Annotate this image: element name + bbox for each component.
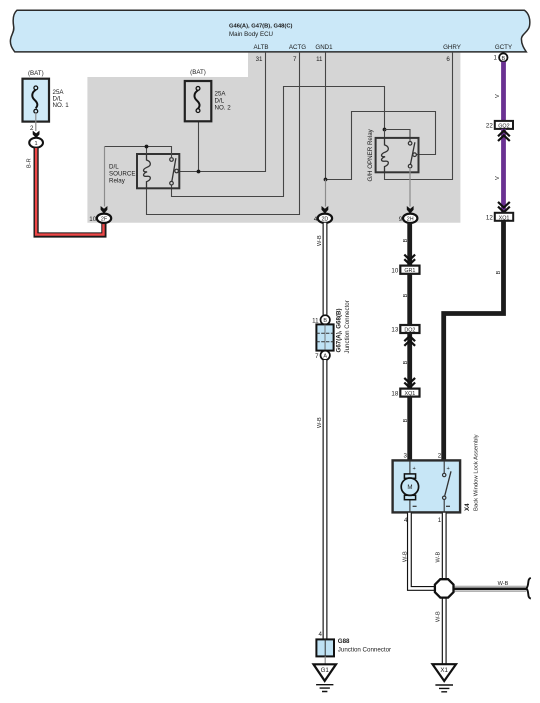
svg-text:1: 1 bbox=[438, 517, 442, 524]
relay D/L SOURCE bbox=[109, 154, 179, 188]
svg-text:GHRY: GHRY bbox=[443, 44, 461, 51]
svg-text:ALTB: ALTB bbox=[253, 44, 268, 51]
connector arrow into 2H bbox=[407, 206, 414, 214]
svg-text:B: B bbox=[501, 56, 505, 62]
svg-text:XQ1: XQ1 bbox=[405, 391, 416, 397]
svg-text:G/H OPNER Relay: G/H OPNER Relay bbox=[367, 128, 374, 181]
junction fuse2/pin31 wire bbox=[197, 170, 201, 174]
svg-text:22: 22 bbox=[486, 123, 493, 130]
svg-text:W-B: W-B bbox=[317, 235, 323, 246]
wire W-B assembly pin1 to junction node bbox=[442, 513, 447, 579]
svg-text:G1: G1 bbox=[321, 667, 330, 674]
wire GND1 pin11 down to node at y179.6 bbox=[325, 53, 327, 180]
svg-text:A: A bbox=[323, 354, 327, 360]
connector arrow into oval 1 bbox=[33, 131, 40, 139]
svg-text:D/L: D/L bbox=[109, 164, 119, 171]
junction node octagon bbox=[435, 579, 454, 597]
svg-text:6: 6 bbox=[446, 56, 450, 63]
svg-text:+: + bbox=[447, 466, 450, 472]
wire GHRY pin6 to G/H OPNER relay coil bottom bbox=[385, 53, 453, 180]
junction GND1 branch bbox=[324, 178, 328, 182]
wire fuse D/L NO.2 to node on pin31 wire bbox=[198, 121, 200, 171]
svg-text:G67(A), G68(B): G67(A), G68(B) bbox=[336, 308, 343, 352]
svg-text:7: 7 bbox=[315, 353, 319, 360]
svg-text:G88: G88 bbox=[338, 638, 350, 645]
fuse 25A D/L NO.1 bbox=[23, 70, 70, 122]
svg-text:ACTG: ACTG bbox=[289, 44, 306, 51]
svg-text:7: 7 bbox=[293, 56, 297, 63]
svg-text:18: 18 bbox=[391, 390, 398, 397]
svg-text:XQ1: XQ1 bbox=[499, 215, 510, 221]
wire W-B assembly pin4 to junction node bbox=[409, 513, 434, 589]
wire W-B from G67/G68 to G88 bbox=[323, 360, 328, 639]
svg-text:10: 10 bbox=[391, 267, 398, 274]
svg-text:GQ2: GQ2 bbox=[498, 123, 509, 129]
connector GR1 pin10 bbox=[400, 266, 419, 274]
wire B from 2H down the junction chain bbox=[407, 223, 412, 461]
wire D/L relay coil top / switch top / 2F node bbox=[105, 147, 172, 158]
svg-text:V: V bbox=[495, 94, 501, 98]
wire V GQ2 to XQ1 bbox=[501, 129, 506, 213]
svg-text:4: 4 bbox=[319, 631, 323, 638]
harness break squiggle bbox=[527, 578, 531, 599]
svg-text:V: V bbox=[495, 176, 501, 180]
wire G/H relay switch common to GND1 branch bbox=[326, 112, 436, 180]
svg-text:GND1: GND1 bbox=[315, 44, 333, 51]
svg-text:+: + bbox=[413, 466, 416, 472]
svg-text:2D: 2D bbox=[321, 217, 328, 223]
wire V GCTY to GQ2 bbox=[501, 62, 506, 121]
svg-text:31: 31 bbox=[256, 56, 263, 63]
connector GQ2 bbox=[495, 121, 513, 129]
wire GND1 to connector 2D bbox=[325, 180, 327, 207]
svg-text:Back Window Lock Assembly: Back Window Lock Assembly bbox=[474, 434, 480, 511]
svg-text:13: 13 bbox=[391, 327, 398, 334]
terminal circle B at GCTY bbox=[499, 53, 507, 61]
ground G1 bbox=[314, 664, 337, 691]
svg-text:Main Body ECU: Main Body ECU bbox=[229, 31, 273, 38]
wire node to G/H relay switch top contact bbox=[385, 130, 411, 142]
connector arrow into 2F bbox=[101, 206, 108, 214]
svg-text:B: B bbox=[403, 361, 409, 365]
connector oval 2F bbox=[97, 214, 111, 223]
svg-text:W-B: W-B bbox=[435, 611, 441, 622]
connector XQ1 pin18 bbox=[400, 389, 419, 397]
svg-text:GR1: GR1 bbox=[404, 268, 415, 274]
junction G/H relay coil top node bbox=[383, 128, 387, 132]
wire W-B junction node to right (continues) bbox=[454, 586, 528, 591]
wire ALTB pin31 to D/L SOURCE relay contact bbox=[179, 53, 265, 172]
svg-text:W-B: W-B bbox=[403, 551, 409, 562]
svg-text:B: B bbox=[496, 271, 502, 275]
wire G88 to ground G1 bbox=[324, 656, 326, 664]
svg-text:Junction Connector: Junction Connector bbox=[344, 300, 351, 353]
junction coil top bbox=[145, 145, 149, 149]
lock switch bbox=[443, 461, 445, 512]
svg-text:W-B: W-B bbox=[498, 581, 509, 587]
svg-text:2: 2 bbox=[438, 452, 442, 459]
svg-text:M: M bbox=[407, 484, 412, 491]
svg-text:SOURCE: SOURCE bbox=[109, 171, 135, 178]
connector DQ2 pin13 bbox=[400, 325, 419, 333]
svg-text:GCTY: GCTY bbox=[495, 44, 512, 51]
ECU banner G46(A),G47(B),G48(C) Main Body ECU bbox=[10, 10, 529, 52]
wire D/L relay switch bottom to G/H relay coil/switch top bbox=[172, 87, 385, 197]
svg-text:B: B bbox=[403, 419, 409, 423]
svg-text:12: 12 bbox=[486, 215, 493, 222]
svg-text:DQ2: DQ2 bbox=[404, 328, 415, 334]
svg-text:B-R: B-R bbox=[27, 158, 33, 168]
connector chevrons below DQ2 bbox=[404, 336, 415, 346]
connector chevrons above XQ1 pin18 bbox=[404, 378, 415, 388]
svg-text:Junction Connector: Junction Connector bbox=[338, 647, 391, 654]
svg-text:11: 11 bbox=[312, 317, 319, 324]
wire B from XQ1 to back window lock assembly pin2 bbox=[444, 221, 504, 461]
svg-text:B: B bbox=[323, 318, 327, 324]
svg-text:X1: X1 bbox=[440, 667, 448, 674]
svg-text:B: B bbox=[403, 239, 409, 243]
coil bbox=[143, 154, 150, 188]
connector arrow into 2D bbox=[322, 206, 329, 214]
svg-text:10: 10 bbox=[89, 216, 96, 223]
svg-text:NO. 1: NO. 1 bbox=[53, 102, 70, 109]
svg-text:D/L: D/L bbox=[215, 98, 225, 105]
svg-text:G46(A), G47(B), G48(C): G46(A), G47(B), G48(C) bbox=[229, 24, 293, 30]
connector chevrons above GR1 bbox=[404, 255, 415, 265]
wire W-B junction node to ground X1 bbox=[442, 598, 447, 664]
ground X1 bbox=[433, 664, 457, 692]
relay G/H OPNER bbox=[367, 128, 419, 181]
wire down to connector 2F bbox=[104, 147, 106, 207]
svg-text:1: 1 bbox=[494, 54, 498, 61]
motor M bbox=[409, 461, 411, 512]
wire B-R fuse1 to 2F bbox=[36, 148, 104, 235]
wire node into G/H relay coil top bbox=[384, 130, 386, 138]
svg-text:(BAT): (BAT) bbox=[28, 70, 44, 77]
svg-text:25A: 25A bbox=[215, 91, 227, 98]
wire ACTG pin7 to D/L SOURCE relay coil bottom bbox=[147, 53, 300, 215]
svg-text:11: 11 bbox=[316, 56, 323, 63]
svg-text:3: 3 bbox=[404, 452, 408, 459]
connector chevrons below GQ2 bbox=[498, 131, 510, 141]
svg-text:W-B: W-B bbox=[435, 551, 441, 562]
svg-text:2H: 2H bbox=[407, 217, 414, 223]
svg-text:(BAT): (BAT) bbox=[190, 69, 206, 76]
connector chevrons above XQ1 bbox=[498, 202, 510, 212]
svg-text:Relay: Relay bbox=[109, 178, 126, 185]
svg-text:NO. 2: NO. 2 bbox=[215, 105, 232, 112]
switch contacts bbox=[170, 158, 174, 162]
svg-text:B: B bbox=[403, 294, 409, 298]
svg-text:1: 1 bbox=[35, 141, 38, 147]
connector oval 2H bbox=[403, 214, 417, 223]
fuse 25A D/L NO.2 bbox=[185, 69, 231, 121]
wire W-B from 2D to junction connector G67/G68 bbox=[323, 223, 328, 316]
junction connector G88 bbox=[316, 638, 391, 656]
svg-text:W-B: W-B bbox=[317, 417, 323, 428]
svg-text:X4: X4 bbox=[464, 503, 471, 511]
gray inner wiring region bbox=[87, 53, 460, 223]
svg-text:2: 2 bbox=[30, 125, 34, 132]
junction connector G67(A),G68(B) bbox=[312, 300, 351, 360]
wire G/H relay switch bottom to connector 2H bbox=[409, 168, 411, 207]
connector oval 2D bbox=[318, 214, 332, 223]
svg-text:2F: 2F bbox=[101, 217, 108, 223]
back window lock assembly X4 bbox=[393, 434, 480, 512]
wire fuse1 pin2 to connector 1 bbox=[35, 113, 37, 131]
connector oval 1 bbox=[29, 138, 43, 148]
connector XQ1 pin12 bbox=[495, 213, 513, 221]
